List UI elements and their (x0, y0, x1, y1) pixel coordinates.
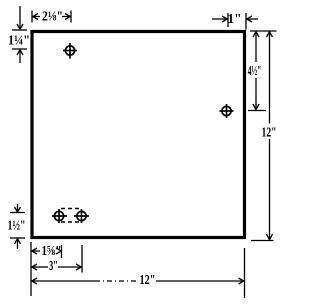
right side extension line at hole level (248, 110, 266, 112)
dimension 1-5/8 inch bottom (32, 245, 62, 258)
svg-text:2⅛": 2⅛" (42, 10, 63, 25)
right extension line below plate (244, 248, 246, 298)
right side extension line top (250, 30, 277, 32)
dimension 1-1/4 inch upper-left (12, 6, 27, 63)
dimension 2-1/8 inch top-left (32, 11, 71, 23)
plate outline (12 x 12 square) (32, 32, 245, 238)
hole H3 bottom-left first (52, 209, 67, 223)
svg-text:1¼": 1¼" (8, 34, 30, 49)
dashed slot lines between H3 and H4 (61, 209, 80, 223)
svg-text:3": 3" (49, 258, 58, 273)
dimension 4-1/2 inch right (253, 32, 259, 110)
svg-text:12": 12" (262, 125, 277, 140)
svg-text:1": 1" (227, 11, 241, 26)
dimension 12 inch right (267, 32, 273, 240)
dimension 1 inch top-right (212, 13, 258, 30)
left extension line below plate (30, 242, 32, 296)
dimension 12 inch bottom (32, 278, 244, 284)
extension line below hole H4 (81, 245, 83, 273)
hole H2 right (220, 104, 234, 118)
dimension 3 inch bottom (32, 264, 81, 270)
svg-text:1⅝": 1⅝" (42, 243, 62, 258)
hole H1 top-left (63, 43, 77, 59)
svg-text:4½": 4½" (248, 64, 262, 79)
svg-text:1½": 1½" (8, 219, 26, 234)
dimension 1-1/2 inch lower-left (10, 204, 25, 249)
svg-text:12": 12" (140, 272, 156, 287)
right side extension line at bottom (251, 240, 274, 242)
hole H4 bottom-left second (74, 209, 89, 223)
